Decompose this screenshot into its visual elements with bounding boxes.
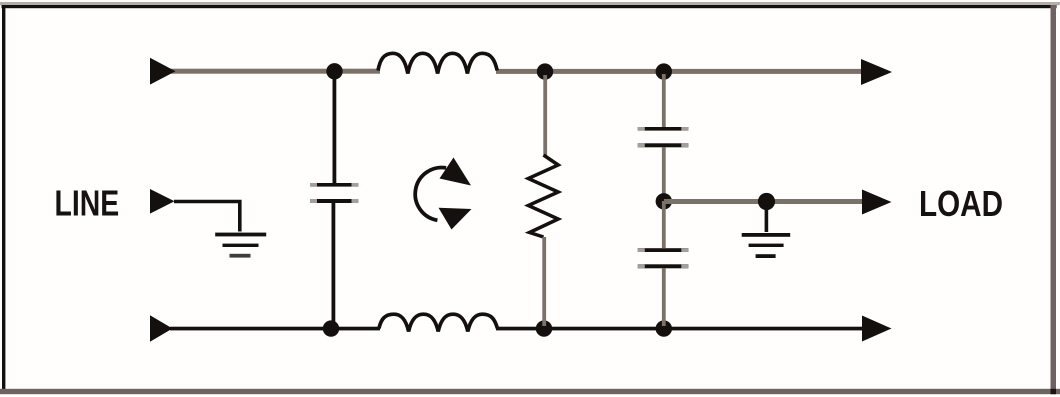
node dot bottom B	[536, 320, 552, 336]
frame left black line	[2, 5, 5, 391]
inductor L2 (bottom, common-mode choke winding)	[379, 314, 497, 331]
circulating-current arrow arc	[415, 168, 446, 221]
frame right gray line	[1051, 5, 1057, 394]
frame bottom gray line	[0, 389, 1060, 394]
wire top rail right segment	[496, 69, 862, 74]
node dot top B (resistor tap)	[537, 63, 553, 79]
arrow LINE input	[150, 189, 175, 214]
capacitor C3 lead bottom	[662, 268, 666, 326]
capacitor C3 top plate	[638, 248, 689, 252]
capacitor C2 lead bottom	[662, 147, 666, 201]
capacitor C1 top plate	[310, 183, 359, 187]
svg-text:LOAD: LOAD	[919, 184, 1003, 225]
node dot mid (y-cap midpoint)	[656, 193, 672, 209]
resistor R1 lead bottom	[542, 237, 546, 326]
capacitor C1 lead bottom	[332, 203, 336, 327]
circulating-current arrowhead top	[440, 158, 472, 186]
wire bottom rail left segment	[170, 327, 380, 331]
capacitor C2 bottom plate	[638, 143, 689, 147]
frame top gray strip	[0, 2, 1060, 5]
node dot ground tap	[758, 193, 775, 210]
circulating-current arrowhead bottom	[439, 208, 472, 230]
capacitor C1 plate tips (scan gray)	[310, 183, 317, 187]
ground G2 bar3	[756, 254, 776, 258]
arrow top-right	[861, 59, 892, 85]
capacitor C2 top plate	[638, 127, 689, 131]
node dot bottom A	[323, 320, 339, 336]
arrow load	[862, 190, 892, 215]
ground G1 bar3	[230, 254, 251, 258]
ground G2 bar1	[742, 233, 791, 237]
ground G2 bar2	[749, 244, 784, 247]
frame top black line	[2, 5, 1057, 8]
resistor R1 lead top	[543, 75, 547, 155]
ground G2 stub	[765, 208, 769, 232]
capacitor C3 lead top	[662, 201, 666, 248]
frame bottom-right corner black nub	[1051, 389, 1057, 394]
capacitor C2 lead top	[662, 74, 666, 127]
capacitor C2 plate tips (scan gray)	[638, 127, 645, 131]
wire midpoint to load	[664, 199, 862, 204]
wire LINE to ground	[174, 202, 240, 232]
arrow top-left	[150, 58, 176, 85]
capacitor C1 lead top	[333, 74, 337, 184]
arrow bottom-left	[150, 315, 173, 341]
node dot top A (x-cap tap)	[326, 63, 342, 79]
wire bottom rail right segment	[496, 327, 862, 331]
svg-text:LINE: LINE	[55, 182, 120, 223]
inductor L1 (top, common-mode choke winding)	[378, 53, 497, 73]
node dot top C (y-cap tap)	[656, 63, 672, 79]
capacitor C3 plate tips (scan gray)	[638, 248, 645, 252]
ground G1 bar2	[223, 244, 259, 247]
ground G1 bar1	[215, 233, 266, 237]
capacitor C3 bottom plate	[638, 264, 689, 268]
arrow bottom-right	[862, 316, 892, 342]
node dot bottom C	[656, 320, 672, 336]
resistor R1 zigzag	[528, 155, 558, 237]
capacitor C1 bottom plate	[310, 199, 359, 203]
wire top rail left segment	[171, 69, 380, 74]
